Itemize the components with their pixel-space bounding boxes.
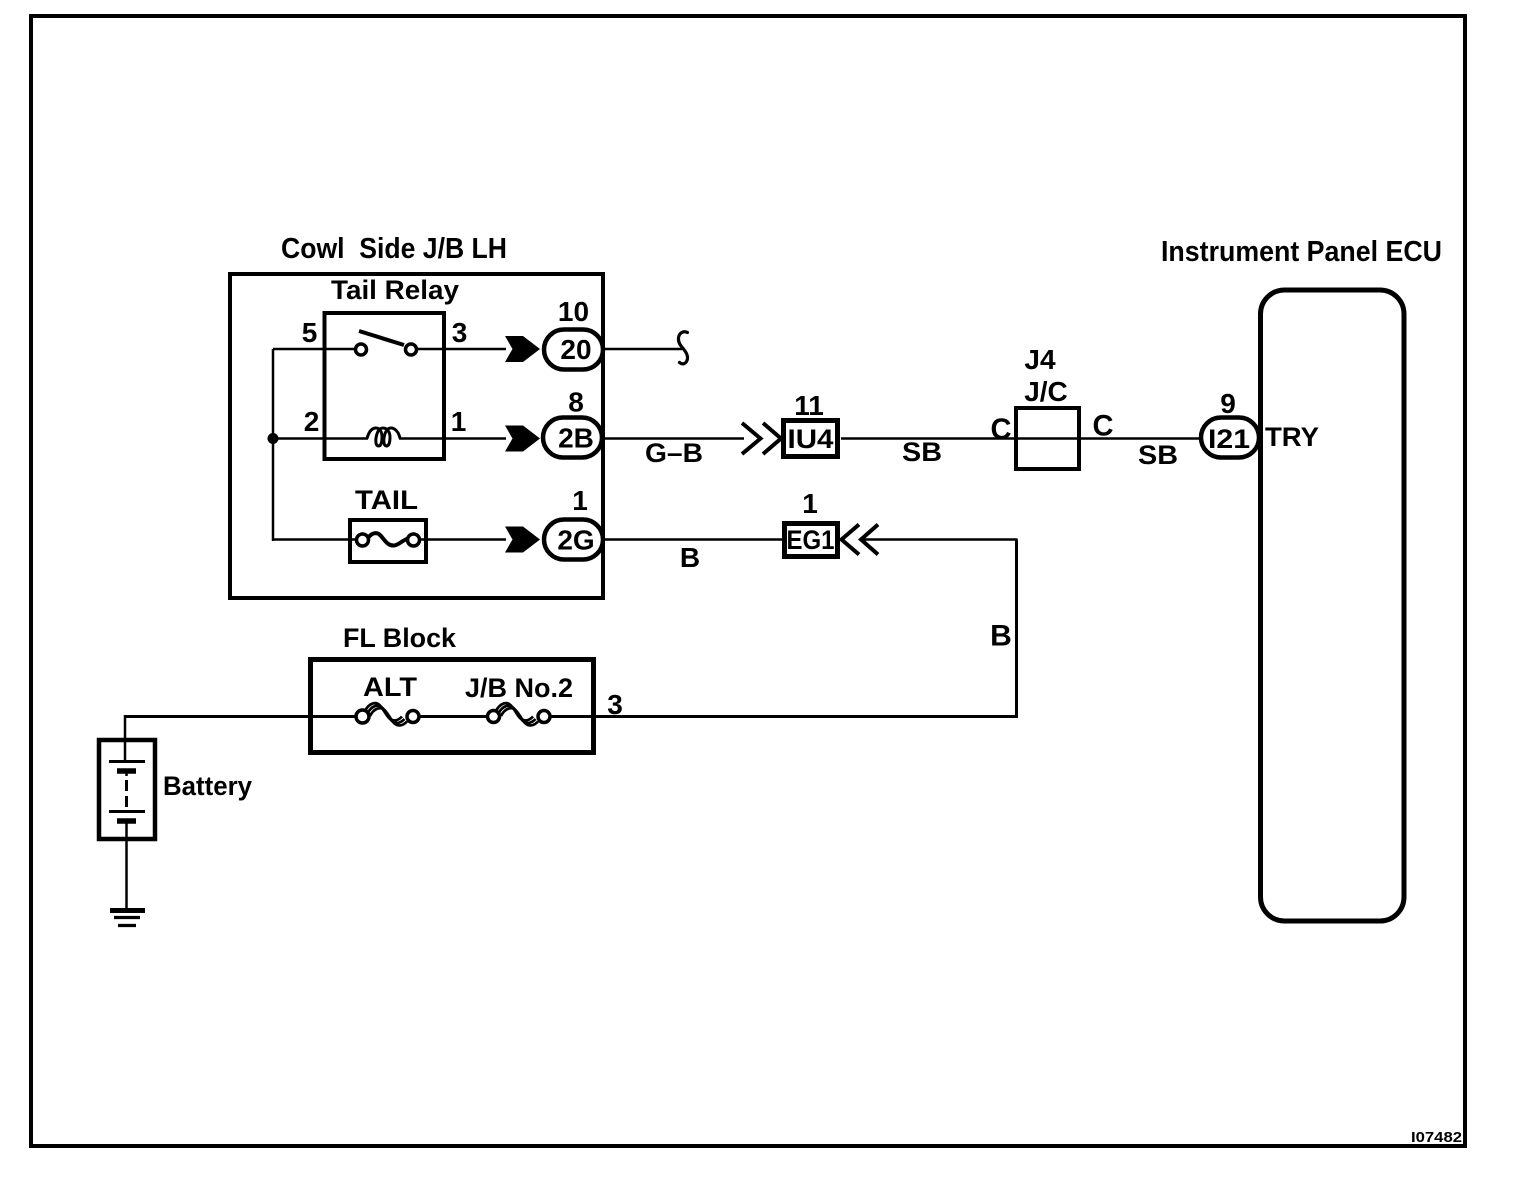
svg-text:8: 8 — [568, 387, 584, 418]
relay coil — [367, 428, 400, 446]
fuse TAIL box — [350, 520, 426, 562]
wire: battery negative to ground — [125, 823, 128, 908]
connector terminal 2G — [544, 520, 603, 560]
wire: vertical drop to battery feed — [1015, 540, 1018, 718]
svg-text:B: B — [680, 542, 700, 573]
svg-text:Cowl Side J/B LH: Cowl Side J/B LH — [281, 233, 507, 265]
svg-text:11: 11 — [794, 390, 824, 421]
svg-text:Tail Relay: Tail Relay — [331, 275, 459, 305]
ECU box: Instrument Panel ECU — [1261, 290, 1405, 921]
battery BAT1 box — [99, 740, 155, 839]
wire: row2 to relay coil — [273, 437, 368, 440]
svg-text:G–B: G–B — [645, 438, 703, 468]
wire: row3 vertical bus to TAIL fuse — [273, 538, 358, 541]
wire: drop from bottom bus to battery — [124, 715, 127, 762]
svg-text:2G: 2G — [557, 525, 594, 556]
svg-text:3: 3 — [607, 689, 623, 720]
battery cell plates — [109, 762, 145, 822]
fusible link J/B No.2 — [488, 703, 551, 725]
fusible link block: FL Block — [311, 660, 594, 753]
svg-text:C: C — [991, 413, 1012, 446]
wire: stub from terminal 20 — [603, 348, 682, 351]
svg-text:TAIL: TAIL — [355, 485, 418, 515]
connector arrow at pin 8 — [505, 426, 540, 452]
junction block box: Cowl Side J/B LH — [230, 274, 603, 598]
wire: row1 left vertical feed to switch — [273, 348, 356, 351]
wire: battery positive feed along bottom — [125, 715, 357, 718]
wire: coil pin1 to connector arrow — [399, 437, 506, 440]
svg-text:1: 1 — [451, 406, 467, 437]
svg-text:J4: J4 — [1024, 344, 1056, 375]
svg-text:10: 10 — [558, 296, 589, 327]
svg-text:I21: I21 — [1208, 424, 1250, 454]
svg-text:ALT: ALT — [363, 672, 418, 702]
splice box IU4 — [784, 421, 838, 457]
svg-text:SB: SB — [902, 437, 942, 467]
wire: terminal 2G to ground splice EG1, net B — [603, 538, 785, 541]
fuse TAIL element — [357, 533, 420, 546]
svg-text:9: 9 — [1220, 388, 1236, 419]
svg-text:J/C: J/C — [1024, 376, 1068, 407]
wire: terminal 2B to splice IU4, net G-B — [603, 437, 744, 440]
svg-text:1: 1 — [572, 485, 588, 516]
wire: left vertical bus in J/B — [272, 349, 275, 541]
wire: switch pin3 to connector arrow — [417, 348, 506, 351]
svg-text:5: 5 — [302, 317, 318, 348]
svg-text:TRY: TRY — [1265, 422, 1319, 452]
svg-text:J/B No.2: J/B No.2 — [465, 673, 573, 703]
connector terminal 2B — [543, 418, 602, 458]
svg-text:B: B — [990, 620, 1012, 653]
svg-text:I07482: I07482 — [1411, 1129, 1462, 1146]
svg-text:1: 1 — [802, 488, 818, 519]
inline connector chevrons >> — [742, 423, 781, 454]
svg-text:2: 2 — [304, 406, 320, 437]
wire break squiggle — [678, 332, 687, 364]
svg-text:20: 20 — [560, 334, 591, 365]
svg-text:2B: 2B — [558, 423, 594, 454]
inline connector chevrons << — [842, 525, 879, 555]
svg-text:IU4: IU4 — [788, 424, 834, 454]
svg-text:EG1: EG1 — [787, 525, 835, 555]
junction connector J4 J/C box — [1016, 408, 1079, 469]
splice box EG1 — [785, 524, 838, 557]
connector arrow at pin 10 — [505, 336, 540, 362]
svg-text:3: 3 — [452, 317, 468, 348]
fusible link ALT — [356, 703, 419, 725]
connector terminal 20 — [544, 330, 603, 370]
connector terminal I21 — [1201, 418, 1259, 458]
svg-text:FL Block: FL Block — [343, 623, 457, 653]
connector arrow at pin 1 (2G) — [505, 527, 540, 553]
wire: IU4 to junction connector J4, net SB — [841, 437, 1199, 440]
junction dot at coil feed — [268, 433, 279, 444]
svg-text:SB: SB — [1138, 440, 1178, 470]
svg-text:Battery: Battery — [163, 771, 252, 801]
wire: EG1 to vertical drop, net B — [861, 538, 1018, 541]
relay K1 "Tail Relay" box — [325, 313, 445, 459]
relay switch contacts and blade — [356, 331, 417, 355]
svg-text:C: C — [1093, 410, 1114, 443]
svg-text:Instrument Panel ECU: Instrument Panel ECU — [1161, 236, 1442, 268]
wire: TAIL fuse to connector arrow — [419, 538, 506, 541]
ground symbol — [110, 911, 145, 926]
